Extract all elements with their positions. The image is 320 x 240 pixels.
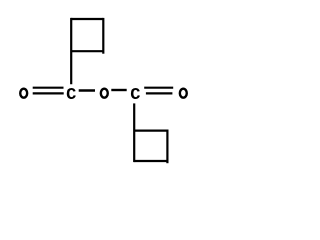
double bond C=O right bbox=[144, 88, 173, 94]
cyclobutane ring bottom (square) bbox=[134, 130, 167, 164]
double bond O=C left bbox=[33, 88, 64, 94]
wire: bond C2 down to ring + ring left edge bbox=[133, 103, 135, 162]
svg-text:C: C bbox=[66, 86, 76, 105]
atom O right bbox=[180, 89, 187, 98]
wire: single bond O2-C2 bbox=[111, 89, 126, 91]
atom O left bbox=[20, 89, 27, 98]
atom O bridge bbox=[101, 89, 108, 98]
cyclobutane ring top (square) bbox=[71, 18, 103, 84]
svg-text:C: C bbox=[130, 86, 140, 105]
wire: single bond C1-O2 bbox=[79, 89, 95, 91]
wire: ring left edge continuing as bond down to C1 bbox=[70, 18, 72, 84]
